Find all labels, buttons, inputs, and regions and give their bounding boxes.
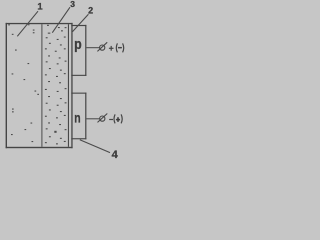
svg-text:n: n bbox=[74, 111, 80, 126]
svg-text:1: 1 bbox=[37, 1, 43, 12]
svg-text:2: 2 bbox=[88, 5, 93, 15]
svg-text:p: p bbox=[74, 37, 82, 53]
svg-text:3: 3 bbox=[70, 0, 75, 9]
svg-text:4: 4 bbox=[112, 149, 119, 161]
